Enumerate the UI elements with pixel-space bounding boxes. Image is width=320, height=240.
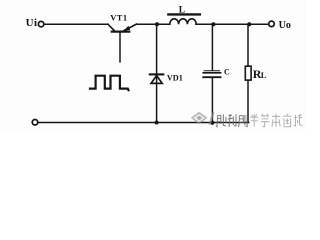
svg-text:L: L <box>261 70 267 80</box>
svg-text:VD1: VD1 <box>167 73 183 82</box>
svg-text:Uo: Uo <box>279 20 291 31</box>
svg-text:C: C <box>224 68 230 77</box>
svg-text:L: L <box>179 6 185 16</box>
svg-text:Ui: Ui <box>26 17 38 29</box>
svg-text:VT1: VT1 <box>110 13 127 23</box>
